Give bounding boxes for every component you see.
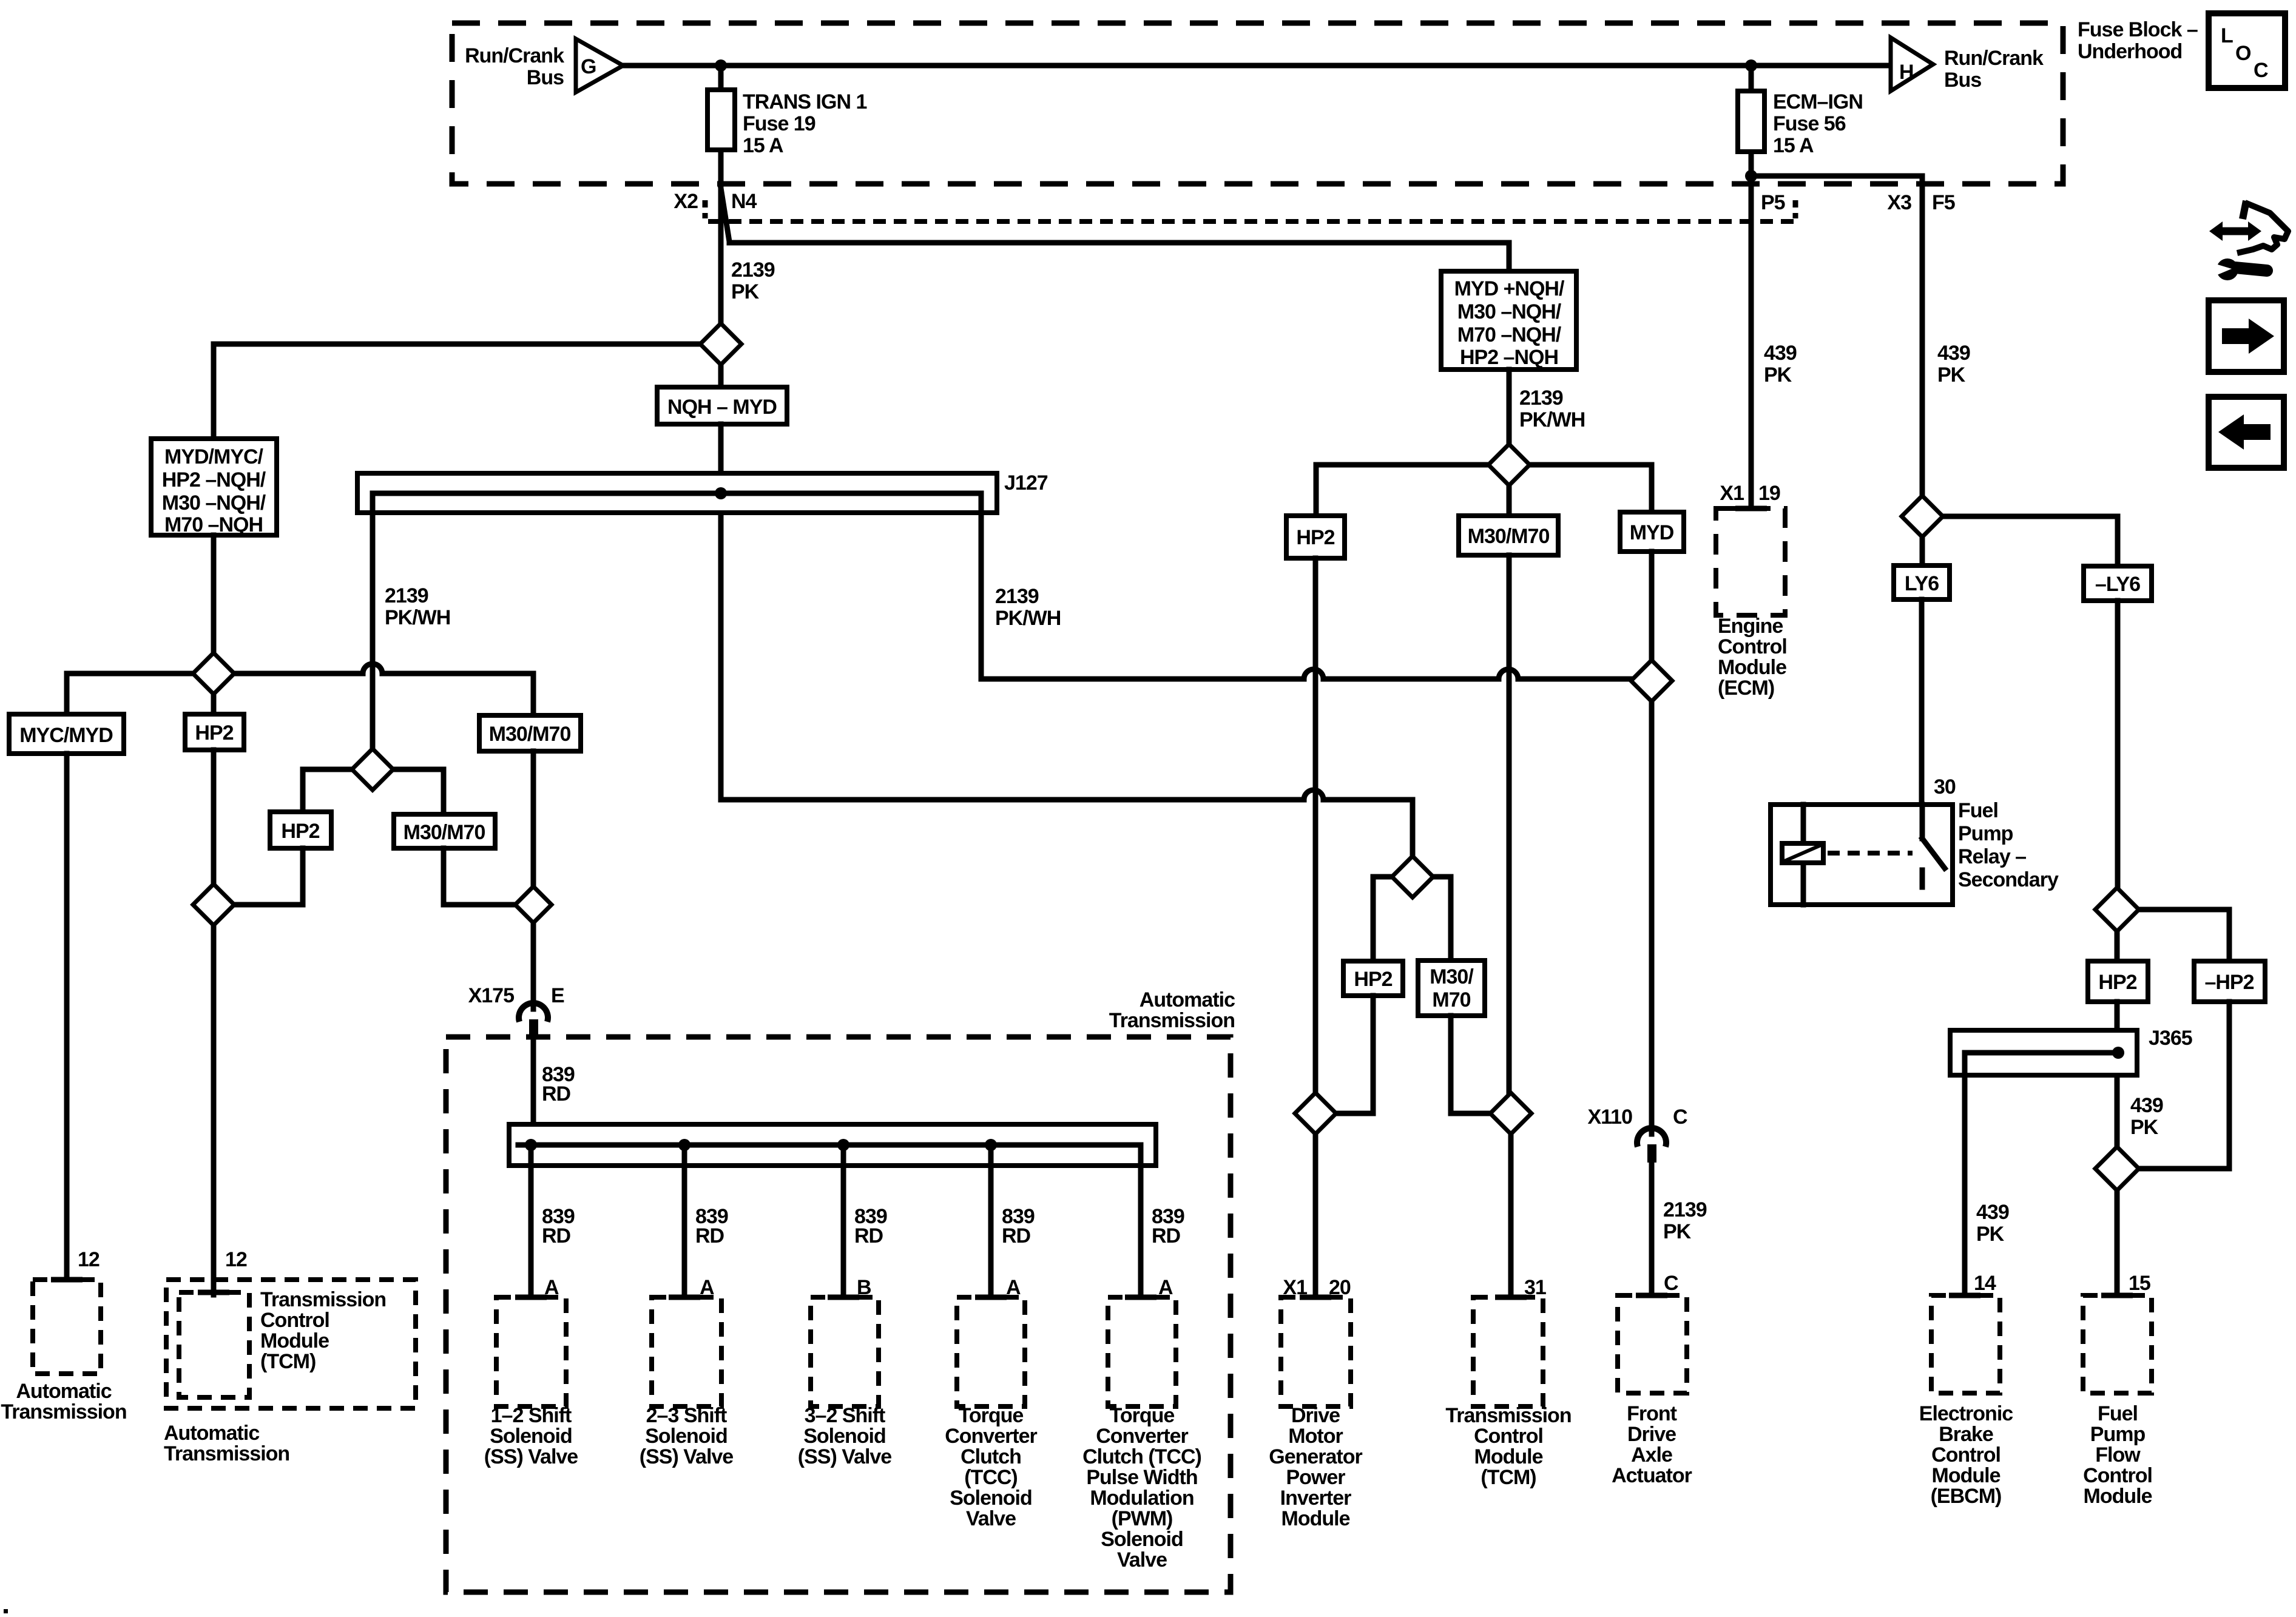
svg-text:M30 –NQH/: M30 –NQH/ [162,491,266,515]
svg-text:Inverter: Inverter [1280,1487,1351,1510]
splice diamond S2 [193,653,234,694]
svg-text:Module: Module [1281,1507,1350,1530]
wire S9 down to drive motor module [1313,1134,1319,1297]
svg-text:PK: PK [731,280,760,303]
svg-text:Run/Crank: Run/Crank [1944,47,2044,70]
svg-text:Bus: Bus [1944,69,1981,92]
option box HP2 (left) [185,714,244,750]
svg-text:ECM–IGN: ECM–IGN [1773,90,1863,113]
svg-text:(TCC): (TCC) [964,1466,1018,1489]
fuse F56 ECM-IGN 15A [1738,91,1764,152]
svg-text:Run/Crank: Run/Crank [465,44,564,67]
svg-text:Torque: Torque [959,1404,1024,1427]
node splice tap 1 [525,1139,537,1151]
svg-text:Converter: Converter [945,1425,1037,1448]
svg-text:Fuse 56: Fuse 56 [1773,112,1846,135]
svg-text:15 A: 15 A [1773,134,1814,157]
connector X110 symbol [1637,1128,1666,1147]
svg-text:2139: 2139 [385,584,428,607]
svg-text:2139: 2139 [731,258,775,282]
svg-text:Module: Module [1718,656,1786,679]
svg-text:Module: Module [1474,1445,1543,1468]
svg-text:Fuel: Fuel [1958,799,1998,822]
option box M30/M70 (lower) [394,814,495,848]
svg-text:Bus: Bus [527,66,564,89]
option box HP2 (lower) [270,812,331,848]
connector TCC PWM solenoid [1108,1297,1176,1406]
svg-text:HP2: HP2 [1354,968,1392,991]
wire X110 down [1649,1163,1655,1295]
relay coil branch wire [1801,805,1806,843]
svg-text:(EBCM): (EBCM) [1931,1485,2002,1508]
svg-text:J365: J365 [2149,1027,2192,1050]
svg-text:NQH – MYD: NQH – MYD [667,396,777,419]
option box NQH - MYD [657,387,787,424]
wire MYC/MYD to automatic transmission [64,754,70,1280]
svg-text:L: L [2221,24,2233,47]
svg-text:Fuse Block –: Fuse Block – [2078,18,2198,41]
svg-text:2139: 2139 [1663,1198,1707,1221]
connector TCC solenoid [957,1297,1025,1406]
svg-text:Drive: Drive [1291,1404,1340,1427]
svg-text:Actuator: Actuator [1612,1464,1692,1487]
connector 3-2 shift solenoid [811,1297,879,1406]
svg-text:Power: Power [1286,1466,1345,1489]
svg-text:PK: PK [1663,1220,1692,1243]
svg-text:19: 19 [1758,482,1780,505]
svg-text:X2: X2 [674,190,698,213]
wire tap1 [528,1145,534,1297]
splice diamond S7 [1631,660,1672,701]
option box LY6 [1894,565,1950,599]
svg-text:Automatic: Automatic [16,1380,111,1403]
splice diamond S8 [1392,856,1433,897]
splice pack solenoid bus [509,1124,1156,1166]
svg-text:N4: N4 [731,190,757,213]
svg-text:Module: Module [1932,1464,2001,1487]
wire S5 down to X175 [531,923,536,1009]
svg-text:M30/M70: M30/M70 [403,821,485,844]
svg-text:C: C [1673,1106,1687,1129]
splice pack J365 [1950,1030,2137,1075]
svg-text:15: 15 [2129,1272,2150,1295]
wire HP2 mid down [1313,558,1319,1093]
svg-text:F5: F5 [1932,191,1955,214]
svg-text:3–2 Shift: 3–2 Shift [805,1404,885,1427]
svg-text:Control: Control [1718,635,1787,658]
svg-text:12: 12 [225,1248,247,1271]
svg-text:439: 439 [1937,342,1970,365]
wire S6 right to MYD [1530,465,1652,512]
bus arrow triangle H [1891,38,1933,91]
connector TCM 31 [1473,1297,1543,1406]
svg-text:HP2: HP2 [1296,526,1334,549]
wire HP2 low to S9 [1339,996,1373,1113]
svg-text:MYD/MYC/: MYD/MYC/ [164,445,264,468]
svg-text:Underhood: Underhood [2078,40,2182,63]
splice diamond S4 [193,884,234,925]
option box MYD [1620,512,1684,552]
node J365 junction [2112,1047,2124,1059]
svg-text:(SS) Valve: (SS) Valve [484,1445,578,1468]
svg-text:HP2: HP2 [195,721,233,744]
wire S7 down to X110 [1649,701,1655,1134]
svg-text:LY6: LY6 [1905,572,1939,595]
svg-text:–HP2: –HP2 [2204,971,2254,994]
wire S3 right to M30/M70 [393,769,444,814]
svg-text:MYD +NQH/: MYD +NQH/ [1454,277,1565,300]
node splice tap 4 [985,1139,997,1151]
wire J127 right drop to long run [981,493,1631,679]
wire S10 down to TCM [1508,1134,1514,1297]
svg-text:MYC/MYD: MYC/MYD [19,724,113,747]
svg-text:439: 439 [2130,1094,2163,1117]
splice diamond S9 [1295,1093,1336,1134]
svg-text:Modulation: Modulation [1090,1487,1194,1510]
svg-text:Control: Control [1474,1425,1543,1448]
svg-text:PK/WH: PK/WH [995,607,1061,630]
option box HP2 (right) [2088,961,2148,1002]
connector P5 tick [1793,200,1798,218]
wire M30/M70 mid down [1507,555,1512,1093]
wire S2 left to MYC/MYD [67,673,193,714]
solenoid splice pack inner bus [518,1143,1141,1148]
splice diamond S12 [2095,888,2139,931]
option box M30/M70 (upper) [479,715,581,751]
wire S11 down to LY6 [1920,537,1925,565]
node splice tap 2 [678,1139,690,1151]
node junction at fuse 56 [1745,59,1757,72]
svg-text:RD: RD [542,1082,571,1106]
svg-text:HP2: HP2 [281,820,319,843]
svg-text:439: 439 [1764,342,1797,365]
wire NQH-MYD down through J127 to lower run [721,424,1413,856]
svg-text:Solenoid: Solenoid [645,1425,728,1448]
connector automatic transmission (left) [33,1280,101,1374]
node junction fuse56 output [1745,170,1757,182]
connector EBCM dashed box [1931,1295,2000,1393]
splice diamond S3 [352,749,393,790]
svg-text:–LY6: –LY6 [2095,573,2140,596]
svg-text:Solenoid: Solenoid [1101,1528,1183,1551]
wire S6 down to M30/M70 [1507,485,1512,516]
svg-text:(TCM): (TCM) [1481,1466,1536,1489]
svg-text:2139: 2139 [995,585,1039,608]
svg-text:C: C [1664,1272,1678,1295]
svg-text:Valve: Valve [966,1507,1016,1530]
TCM inner dashed box [179,1292,249,1397]
wire S11 right to -LY6 [1943,516,2118,566]
connector fuel pump flow module dashed box [2083,1295,2152,1393]
TCM outer dashed box [166,1280,416,1408]
svg-text:Secondary: Secondary [1958,868,2059,891]
relay actuation dashed line [1828,851,1913,856]
wire S2 right to M30/M70 (hop over 2139 wire) [234,664,533,715]
fuel pump relay secondary box [1771,805,1953,905]
svg-text:Clutch (TCC): Clutch (TCC) [1082,1445,1201,1468]
svg-text:Automatic: Automatic [164,1422,259,1445]
connector X2 tick [703,200,708,218]
wire -LY6 down [2115,601,2121,888]
wire S4 right to HP2 lower [234,848,303,905]
connector drive motor gen module [1281,1297,1351,1406]
option box MYC/MYD [9,714,124,754]
bus arrow triangle G [576,39,623,92]
wire tap5 (bus end) [1138,1145,1144,1297]
wire S12 right to -HP2 [2139,910,2229,961]
svg-text:2139: 2139 [1519,387,1563,410]
svg-text:HP2 –NQH/: HP2 –NQH/ [162,468,266,491]
splice diamond S10 [1490,1093,1531,1134]
wire S2 down [211,694,217,714]
fuse F19 TRANS IGN 1 15A [707,90,735,150]
option box MYD +NQH list [1441,271,1576,370]
svg-text:H: H [1899,61,1914,84]
option box -LY6 [2084,566,2152,601]
svg-text:Solenoid: Solenoid [950,1487,1032,1510]
svg-text:Transmission: Transmission [1445,1404,1571,1427]
svg-text:Fuse 19: Fuse 19 [743,112,815,135]
node junction at fuse 19 [715,59,727,72]
svg-text:Transmission: Transmission [164,1442,289,1465]
svg-text:Control: Control [1931,1443,2001,1467]
wire S6 left to HP2 [1316,465,1488,516]
wire S8 left to HP2 low [1373,877,1392,961]
svg-text:P5: P5 [1761,191,1785,214]
svg-text:(SS) Valve: (SS) Valve [798,1445,892,1468]
splice diamond S5 [515,886,552,923]
svg-text:Brake: Brake [1939,1423,1993,1446]
svg-text:Control: Control [260,1309,329,1332]
svg-text:2–3 Shift: 2–3 Shift [646,1404,727,1427]
svg-text:PK: PK [1976,1223,2005,1246]
svg-text:M70: M70 [1432,988,1470,1011]
svg-text:RD: RD [542,1224,571,1247]
svg-text:1–2 Shift: 1–2 Shift [491,1404,572,1427]
svg-text:Pump: Pump [1958,822,2013,845]
harness connector dotted line [708,219,1794,224]
svg-text:PK: PK [1937,363,1966,387]
fuse block - underhood dashed box [452,23,2063,184]
svg-text:Engine: Engine [1718,615,1783,638]
svg-text:M30/: M30/ [1430,965,1474,988]
svg-text:E: E [551,984,564,1007]
svg-text:RD: RD [854,1224,883,1247]
option box -HP2 [2194,961,2265,1002]
wire box down [211,535,217,653]
splice pack J127 inner bus [373,491,981,496]
svg-text:(ECM): (ECM) [1718,677,1774,700]
relay switch [1920,805,1925,839]
svg-text:Flow: Flow [2095,1443,2141,1467]
svg-text:MYD: MYD [1630,521,1674,544]
wire to fuse 56 [1749,66,1754,508]
svg-text:(SS) Valve: (SS) Valve [640,1445,734,1468]
splice pack J365 inner bus [1965,1050,2119,1056]
svg-text:RD: RD [1152,1224,1181,1247]
wire -HP2 down [2139,1002,2229,1169]
svg-text:15 A: 15 A [743,134,783,157]
page dot [4,1609,8,1613]
wire HP2 down [211,750,217,884]
connector front drive axle actuator [1618,1295,1687,1393]
svg-text:X1: X1 [1720,482,1744,505]
svg-text:Converter: Converter [1096,1425,1188,1448]
svg-text:Automatic: Automatic [1140,988,1235,1011]
svg-text:Pulse Width: Pulse Width [1086,1466,1197,1489]
connector 2-3 shift solenoid [652,1297,721,1406]
LOC locator box [2209,13,2285,88]
splice diamond S6 [1488,444,1530,485]
svg-text:M30/M70: M30/M70 [1468,525,1550,548]
wire tap3 [841,1145,846,1297]
svg-text:Module: Module [2084,1485,2152,1508]
wire LY6 to relay [1919,599,1925,805]
svg-text:M30/M70: M30/M70 [489,723,571,746]
svg-text:M30 –NQH/: M30 –NQH/ [1457,300,1562,323]
svg-text:(TCM): (TCM) [260,1350,316,1373]
connector 1-2 shift solenoid [496,1297,566,1406]
relay coil [1782,843,1823,863]
icon arrow left box [2209,397,2284,468]
svg-text:Transmission: Transmission [1,1400,126,1423]
svg-text:X110: X110 [1587,1106,1632,1129]
svg-text:PK: PK [1764,363,1792,387]
automatic transmission dashed box [446,1037,1231,1592]
svg-text:Solenoid: Solenoid [490,1425,572,1448]
svg-text:Motor: Motor [1288,1425,1343,1448]
icon arrow right box [2209,300,2284,372]
svg-text:PK: PK [2130,1116,2159,1139]
svg-text:PK/WH: PK/WH [385,606,450,629]
wire N4 branch diagonal [721,188,1509,271]
node splice tap 3 [837,1139,849,1151]
svg-text:Drive: Drive [1627,1423,1676,1446]
svg-text:Electronic: Electronic [1919,1402,2013,1425]
svg-text:Module: Module [260,1329,329,1352]
wire MYD down [1649,552,1655,660]
wire MYD+NQH down [1507,370,1512,444]
option box HP2 (low) [1343,961,1403,996]
svg-text:RD: RD [695,1224,724,1247]
svg-text:30: 30 [1934,775,1956,798]
splice diamond S13 [2095,1147,2139,1190]
svg-text:Pump: Pump [2090,1423,2146,1446]
svg-text:X175: X175 [468,984,514,1007]
svg-text:HP2 –NQH: HP2 –NQH [1460,346,1558,369]
svg-text:G: G [581,55,596,78]
wire M30/M70 lower down [444,848,515,905]
svg-text:J127: J127 [1004,471,1048,495]
option box M30/M70 (low) [1418,960,1485,1016]
svg-text:Clutch: Clutch [961,1445,1021,1468]
wire M30/M70 low to S10 [1451,1016,1488,1113]
wire S1 to left column [214,344,700,439]
wire M30/M70 upper down [531,751,536,886]
wire branch to X3 F5 [1751,176,1922,496]
svg-text:Transmission: Transmission [1109,1009,1235,1032]
wire J127 left drop [370,493,376,749]
svg-text:Front: Front [1627,1402,1677,1425]
option box M30/M70 (mid) [1459,516,1558,555]
splice pack J127 [357,473,997,513]
svg-text:Fuel: Fuel [2098,1402,2138,1425]
connector entry tick marks [51,508,2133,1297]
wire tap2 [682,1145,687,1297]
wire tap4 [988,1145,994,1297]
wire S1 down [718,365,724,387]
svg-text:O: O [2235,42,2251,65]
svg-text:X3: X3 [1887,191,1911,214]
node J127 junction [715,487,727,499]
svg-text:C: C [2254,59,2268,82]
icon adjust hand with wrench [2209,201,2288,280]
svg-text:14: 14 [1974,1272,1996,1295]
wire S13 down to fuel pump module [2115,1190,2120,1295]
svg-text:HP2: HP2 [2098,971,2136,994]
svg-text:Relay –: Relay – [1958,845,2026,868]
wire S12 down to HP2 [2115,931,2120,961]
connector X175 symbol [519,1003,548,1022]
svg-text:Control: Control [2083,1464,2152,1487]
svg-text:12: 12 [78,1248,100,1271]
wire Run/Crank bus [623,63,1891,69]
wire HP2 right down through J365 [2115,1002,2120,1147]
svg-text:M70 –NQH/: M70 –NQH/ [1457,323,1562,346]
wire to fuse 19 [718,66,724,323]
splice diamond S11 [1902,496,1943,537]
connector ECM dashed box [1716,508,1785,615]
wire S8 right to M30/M70 low [1433,877,1451,960]
svg-text:RD: RD [1002,1224,1031,1247]
svg-text:Solenoid: Solenoid [803,1425,886,1448]
svg-text:Transmission: Transmission [260,1288,386,1311]
svg-text:PK/WH: PK/WH [1519,408,1585,431]
splice diamond S1 [700,323,741,365]
svg-text:439: 439 [1976,1201,2009,1224]
svg-text:Torque: Torque [1110,1404,1175,1427]
option box MYD/MYC/HP2/M30/M70 [151,439,277,535]
wire S4 down to TCM [211,925,217,1295]
svg-text:(PWM): (PWM) [1112,1507,1173,1530]
option box HP2 (mid) [1286,516,1345,558]
svg-text:Valve: Valve [1117,1548,1167,1571]
svg-text:Generator: Generator [1269,1445,1362,1468]
svg-text:Axle: Axle [1631,1443,1672,1467]
wire J365 left drop to EBCM [1962,1053,1968,1295]
wire X175 down to splice pack [531,1038,536,1127]
svg-text:TRANS IGN 1: TRANS IGN 1 [743,90,866,113]
wire S3 left to HP2 [303,769,352,812]
